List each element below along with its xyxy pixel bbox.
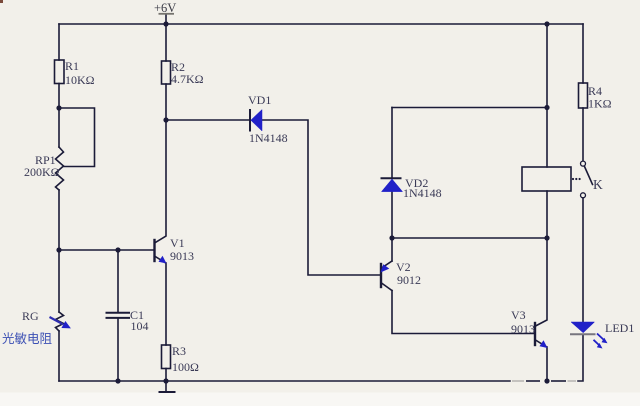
svg-text:1N4148: 1N4148 [403,186,442,200]
wire R1 to RP1 [58,84,60,148]
wire VD2 anode [391,108,393,178]
wire V2 emitter up to node [391,238,393,261]
dotted link coil to contact [572,178,581,180]
dashed watermark rail segment [512,380,576,382]
LED LED1 [570,322,608,349]
svg-text:R1: R1 [65,59,79,73]
transistor V1 [155,240,166,263]
capacitor C1 [107,250,130,381]
node VD1 branch [163,117,168,122]
node relay bottom [544,235,549,240]
svg-text:10KΩ: 10KΩ [65,73,95,87]
corner speck [0,0,3,3]
diode VD1 [250,109,262,132]
label R1 [65,59,95,87]
label V3 [511,308,535,336]
wire top +6V rail [59,23,583,25]
wire +6V to R2 [165,24,167,61]
relay coil K [522,167,571,191]
svg-text:K: K [593,177,603,192]
wire V2 collector down and right to V3 base [392,291,535,334]
node base left [56,247,61,252]
label LED1 [605,321,634,335]
ground [160,381,175,392]
node V2 emitter [389,235,394,240]
svg-text:光敏电阻: 光敏电阻 [2,331,53,346]
wire RG to bottom rail [58,331,60,381]
svg-text:9013: 9013 [511,322,535,336]
wire +6V stem [165,15,167,25]
bottom lighter band [0,393,640,406]
label VD2 [403,176,442,200]
svg-text:+6V: +6V [154,1,176,15]
wire VD1 to V2 base [262,120,381,275]
wire R3 to rail [165,369,167,382]
svg-text:RG: RG [22,309,39,323]
wire node to V3 collector [536,238,548,326]
V2 emitter arrow [381,264,390,272]
node +6V junction [163,21,168,26]
node C1 bottom [115,378,120,383]
wire R4 to switch [582,108,584,161]
svg-text:VD1: VD1 [248,93,271,107]
label VD1 [248,93,288,145]
wire VD2 cathode to node [391,192,393,238]
resistor R1 [55,60,65,84]
svg-text:200KΩ: 200KΩ [24,165,60,179]
resistor R2 [162,61,171,84]
diode VD2 [381,178,403,191]
wire switch to LED [582,198,584,322]
potentiometer RP1 [56,147,64,190]
svg-text:100Ω: 100Ω [172,360,199,374]
node RP1 top [56,105,61,110]
transistor V2 [381,261,392,291]
svg-text:9013: 9013 [170,249,194,263]
svg-text:LED1: LED1 [605,321,634,335]
V3 emitter arrow [540,340,548,348]
svg-text:9012: 9012 [397,273,421,287]
wire V1 emitter to R3 [165,263,167,345]
label V2 [396,260,421,287]
wire left branch upper [58,24,60,60]
wire R2 to V1 collector [155,84,167,243]
svg-text:V3: V3 [511,308,526,322]
wire right vertical from rail to relay coil [546,24,548,167]
label C1 [130,308,149,333]
+6V label [154,1,176,15]
node top right junction [544,21,549,26]
svg-text:V2: V2 [396,260,411,274]
label RG [22,309,39,323]
wire coil to node [546,191,548,238]
wire RP1 wiper loop [59,108,95,167]
V1 emitter arrow [159,256,167,264]
RG light arrow [50,317,71,328]
wire V3 emitter to rail [546,347,548,381]
wire RP1 to node A [58,190,60,250]
label R4 [588,84,612,111]
relay contact K [581,161,593,198]
node C1 top [115,247,120,252]
wire base node to V1 [59,249,155,251]
label R3 [172,344,199,374]
wire bottom rail [59,380,510,382]
node V3 emitter rail [544,378,549,383]
wire node to VD1 [166,119,249,121]
wire top rail right corner down to R4 [582,24,584,83]
wire node to relay branch [392,237,547,239]
label R2 [171,60,204,86]
svg-text:V1: V1 [170,236,185,250]
node R3 bottom [163,378,168,383]
photoresistor RG [56,312,64,331]
resistor R3 [162,345,171,369]
label RG chinese [2,331,53,346]
wire node A to RG [58,250,60,312]
node VD2 top branch [544,105,549,110]
wire LED to rail corner [578,335,583,382]
svg-text:104: 104 [131,319,149,333]
svg-text:1N4148: 1N4148 [249,131,288,145]
resistor R4 [579,83,588,108]
label RP1 [24,153,60,179]
svg-text:R3: R3 [172,344,186,358]
label K [593,177,603,192]
svg-text:1KΩ: 1KΩ [588,97,612,111]
label V1 [170,236,194,263]
transistor V3 [535,323,546,347]
svg-text:4.7KΩ: 4.7KΩ [171,72,204,86]
wire VD2 top branch [392,107,547,109]
